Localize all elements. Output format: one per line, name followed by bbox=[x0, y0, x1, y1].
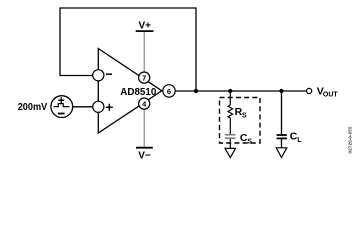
svg-text:OUT: OUT bbox=[323, 92, 339, 99]
svg-text:V+: V+ bbox=[138, 21, 151, 32]
svg-text:6: 6 bbox=[167, 87, 171, 96]
svg-text:02729-0-055: 02729-0-055 bbox=[347, 126, 352, 153]
svg-text:L: L bbox=[297, 137, 302, 144]
svg-text:S: S bbox=[242, 113, 247, 120]
svg-text:7: 7 bbox=[142, 73, 146, 82]
svg-text:AD8510: AD8510 bbox=[120, 86, 156, 98]
svg-text:V−: V− bbox=[138, 150, 151, 161]
svg-text:200mV: 200mV bbox=[18, 101, 48, 113]
svg-text:S: S bbox=[247, 138, 252, 145]
